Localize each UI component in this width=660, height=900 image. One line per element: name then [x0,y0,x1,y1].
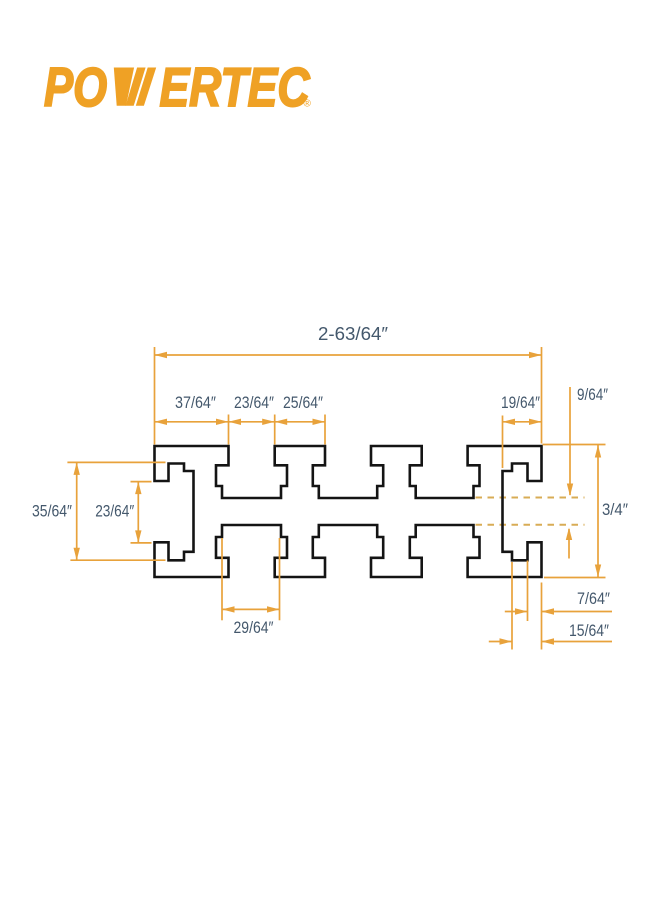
svg-text:3/4″: 3/4″ [602,500,628,519]
dimension line 15/64 left part [489,641,512,643]
extension line bottom surface right [544,577,606,579]
leader line 9/64 pointing down to web top [569,387,571,495]
dimension line 7/64 right part [542,611,613,613]
dimension line 37/64 [155,421,229,423]
dimension line 35/64 [76,462,78,560]
hidden web bottom edge (dashed) [476,524,585,526]
svg-text:25/64″: 25/64″ [283,393,323,412]
extension line left edge (overall width) [154,347,156,445]
svg-text:2-63/64″: 2-63/64″ [318,324,389,344]
svg-text:35/64″: 35/64″ [32,502,72,521]
svg-text:19/64″: 19/64″ [501,393,540,412]
extension line at slot1 right lip [274,415,276,445]
svg-text:15/64″: 15/64″ [569,621,609,640]
extension line at slot1 left lip [228,415,230,445]
svg-text:7/64″: 7/64″ [577,589,610,608]
extension line right cavity back wall (into profile) [502,416,504,469]
extension line bottom slot1 floor right [279,538,281,620]
extension line left opening top [131,481,152,483]
dimension line 23/64 left [137,482,139,543]
svg-text:29/64″: 29/64″ [234,618,274,637]
extension line right cavity lip (bottom) [527,561,529,622]
dimension line 25/64 [275,421,325,423]
aluminum T-track profile cross-section outline [155,446,542,577]
svg-text:23/64″: 23/64″ [95,502,134,521]
extension line right cavity step (bottom) [511,562,513,650]
svg-text:9/64″: 9/64″ [577,385,608,404]
extension line top surface right [543,444,606,446]
POWERTEC logo: stylized W wedge [114,68,134,106]
extension line right edge (overall width) [541,347,543,444]
svg-text:PO: PO [44,56,107,118]
extension line right edge (bottom) [541,583,543,650]
svg-text:37/64″: 37/64″ [175,393,216,412]
svg-text:®: ® [304,99,312,110]
POWERTEC logo: W slash 2 [136,68,156,106]
dimension line 7/64 left part [505,611,528,613]
dimension line 15/64 right part [542,641,613,643]
extension line at slot2 left lip [324,415,326,445]
extension line left opening bottom [131,542,152,544]
leader arrow pointing up to web bottom [568,529,570,559]
dimension line 23/64 top [229,421,275,423]
extension line bottom slot1 floor left [221,538,223,620]
svg-text:23/64″: 23/64″ [234,393,274,412]
POWERTEC logo: W slash 1 [126,68,146,106]
hidden web top edge (dashed) [476,497,585,499]
dimension line 29/64 [222,608,280,610]
extension line left cavity bottom [70,559,165,561]
dimension line 19/64 [503,421,542,423]
svg-text:ERTEC: ERTEC [160,56,311,118]
dimension line 2-63/64 [155,354,542,356]
extension line left cavity top [67,461,165,463]
dimension line 3/4 [597,445,599,577]
